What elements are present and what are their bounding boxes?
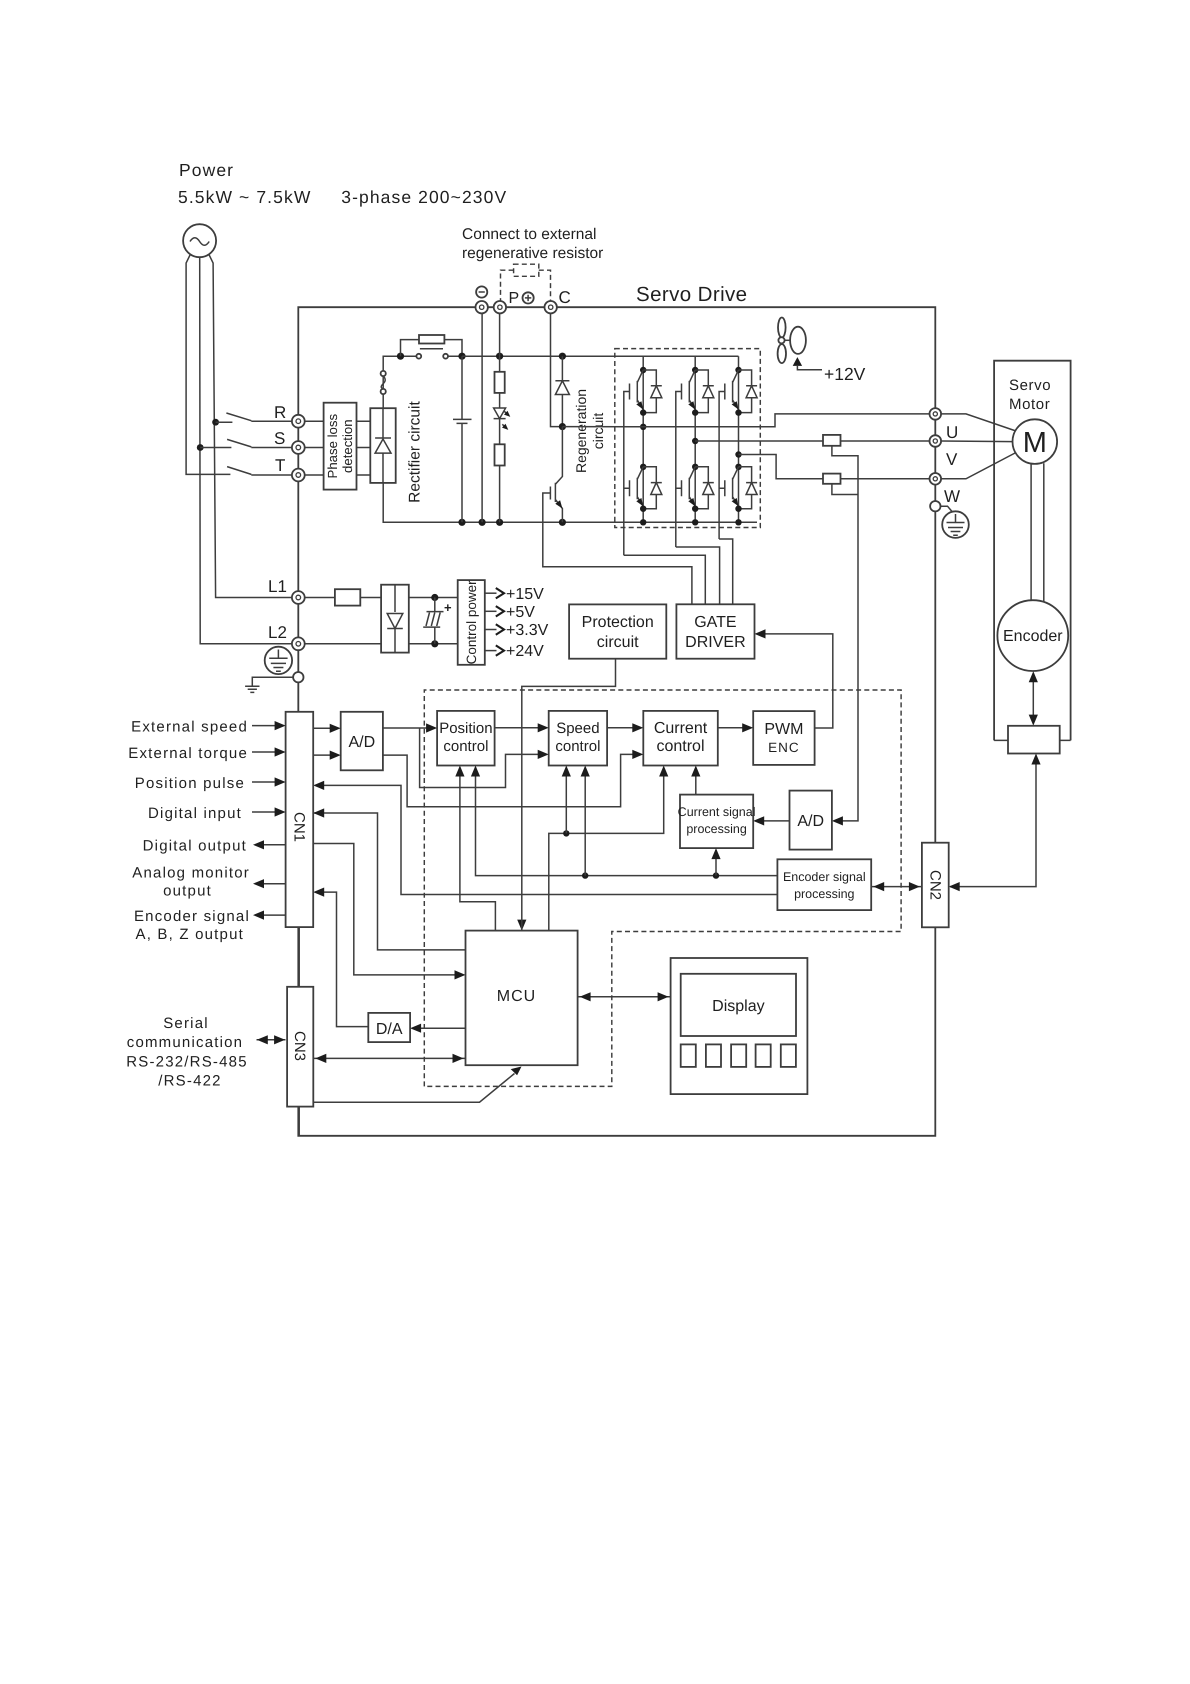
node: W bus <box>735 519 741 525</box>
arrow: feedback to speed control <box>584 768 586 876</box>
box: current signal processing <box>680 795 753 849</box>
box: current control <box>643 711 718 766</box>
terminal V <box>930 435 942 447</box>
transistor Q-U-top <box>630 370 644 410</box>
svg-text:CN1: CN1 <box>290 812 307 842</box>
transistor Q-U-bot <box>630 467 644 507</box>
svg-text:C: C <box>559 288 571 307</box>
box: protection circuit <box>569 604 666 658</box>
svg-text:MCU: MCU <box>497 988 536 1005</box>
svg-text:+: + <box>444 600 452 615</box>
svg-text:+24V: +24V <box>506 643 544 660</box>
svg-text:circuit: circuit <box>597 634 639 651</box>
wire: U gate jog to gate driver <box>624 555 706 604</box>
node: V bus <box>692 519 698 525</box>
wire: AC right leg to R switch and L1 <box>209 254 292 598</box>
box: encoder signal processing <box>777 859 871 910</box>
external regenerative resistor (dashed) <box>514 264 539 276</box>
svg-text:Regeneration: Regeneration <box>573 389 589 473</box>
node: soft charge left <box>397 353 404 360</box>
wire: +24V output <box>485 650 497 652</box>
wire: CN3 to MCU diagonal <box>313 1074 515 1103</box>
arrow: ESP to CN2 (bidirectional) <box>871 886 922 888</box>
svg-text:P: P <box>509 290 520 307</box>
node: fan 12V arrow <box>793 357 802 366</box>
motor M circle <box>1013 419 1058 464</box>
svg-text:PWM: PWM <box>764 721 803 738</box>
svg-text:Rectifier circuit: Rectifier circuit <box>407 400 424 502</box>
terminal C <box>545 301 557 313</box>
svg-text:T: T <box>275 456 285 475</box>
wire: rectifier to control power box top rail <box>409 597 458 599</box>
node: U bottom collector <box>640 464 646 470</box>
node: P terminal on rail <box>496 353 503 360</box>
wire: T to phase loss box <box>305 474 371 476</box>
node: U bottom emitter <box>640 506 646 512</box>
wire: protection to MCU <box>522 659 616 919</box>
svg-text:Position pulse: Position pulse <box>135 775 245 792</box>
fuse F-L1 <box>335 589 360 605</box>
wire: connector box to motor frame <box>994 739 1071 741</box>
wire: rectifier to control power box bottom rail <box>409 643 458 645</box>
svg-text:GATE: GATE <box>694 614 736 631</box>
svg-text:control: control <box>656 738 704 755</box>
display buttons <box>681 1044 696 1067</box>
arrow: feedback to CSP <box>715 850 717 876</box>
svg-text:output: output <box>163 882 212 899</box>
wire: rectifier top to relay (breaker) <box>383 356 397 408</box>
wire: A/D out to position control <box>383 727 435 729</box>
wire: AC left leg to T switch <box>186 254 230 474</box>
svg-text:processing: processing <box>794 887 854 901</box>
node: cap top <box>431 594 438 601</box>
wire: U to motor <box>941 414 1016 431</box>
wire: CN1 to MCU with arrow <box>313 844 463 975</box>
arrow: A/D to current signal processing <box>755 820 789 822</box>
resistor R-softcharge bypass <box>401 340 463 357</box>
svg-text:processing: processing <box>686 822 746 836</box>
arrow: current to PWM <box>718 727 751 729</box>
switch SW-R <box>216 413 292 422</box>
svg-text:S: S <box>274 429 285 448</box>
wire: +5V output <box>485 610 497 612</box>
svg-text:Protection: Protection <box>582 614 654 631</box>
protective earth PE-2 <box>265 647 292 674</box>
node: regen branch on rail <box>559 353 566 360</box>
node: regen collector junction <box>559 423 566 430</box>
encoder circle <box>997 600 1068 671</box>
svg-text:/RS-422: /RS-422 <box>158 1073 221 1090</box>
svg-text:Current signal: Current signal <box>678 805 756 819</box>
svg-text:Connect to external: Connect to external <box>462 226 596 243</box>
arrow: CSP to current control <box>695 768 697 795</box>
svg-text:Servo: Servo <box>1009 377 1051 394</box>
node: U top emitter <box>640 409 646 415</box>
wire: C terminal to regen node <box>551 314 563 427</box>
terminal S <box>292 441 305 454</box>
transistor Q-W-bot <box>725 467 739 507</box>
svg-text:DRIVER: DRIVER <box>685 634 745 651</box>
label: minus symbol <box>476 286 487 297</box>
node: V bottom collector <box>692 464 698 470</box>
svg-text:Digital input: Digital input <box>148 805 242 822</box>
node: speed feedback branch <box>582 872 588 878</box>
svg-text:ENC: ENC <box>768 740 800 755</box>
wire: P terminal drop <box>499 314 501 372</box>
svg-text:circuit: circuit <box>590 413 606 450</box>
svg-text:U: U <box>946 423 958 442</box>
svg-text:Display: Display <box>712 998 764 1015</box>
wire: ESP line C to CN1 <box>315 785 777 894</box>
svg-text:Motor: Motor <box>1009 396 1050 413</box>
box: rectifier circuit <box>370 408 395 483</box>
node: U phase tap <box>640 424 646 430</box>
wire: W gate line <box>719 392 725 540</box>
dashed control region <box>424 690 901 1086</box>
wire: S to phase loss box <box>305 447 371 449</box>
wire: +15V output <box>485 592 497 594</box>
fan icon <box>778 318 786 338</box>
svg-text:CN3: CN3 <box>291 1031 308 1061</box>
arrow: speed to current <box>607 727 641 729</box>
node: W phase tap <box>735 451 741 457</box>
connector circle above CN1 <box>293 672 303 682</box>
node: S feed junction <box>197 444 204 451</box>
wire: R to phase loss box <box>305 420 371 422</box>
box: speed control <box>549 711 607 766</box>
diode D-V-bot <box>695 467 714 509</box>
wire: ESP feedback line B <box>476 768 778 876</box>
svg-text:External torque: External torque <box>128 745 248 762</box>
wire: PWM ENC to gate driver <box>757 634 833 728</box>
svg-text:communication: communication <box>127 1034 243 1051</box>
svg-text:+5V: +5V <box>506 604 535 621</box>
box: position control <box>437 711 495 766</box>
diode D-W-top <box>739 370 758 413</box>
wire: leg U from DC+ <box>642 356 644 522</box>
svg-text:L1: L1 <box>268 577 287 596</box>
wire: +3.3V output <box>485 629 497 631</box>
arrow: MCU to display (bidirectional) <box>578 996 671 998</box>
capacitor C-bus <box>453 356 472 522</box>
svg-text:D/A: D/A <box>376 1021 403 1038</box>
transistor Q-V-bot <box>682 467 696 507</box>
connector CN2 <box>922 843 949 928</box>
svg-text:Encoder signal: Encoder signal <box>134 908 250 925</box>
node: minus terminal bus <box>479 519 486 526</box>
node: W bottom collector <box>735 464 741 470</box>
terminal L1 <box>292 591 305 604</box>
wire: L2 down to CN1 <box>297 650 299 712</box>
transistor Q-V-top <box>682 370 696 410</box>
node: V top emitter <box>692 409 698 415</box>
wire: W phase to terminal <box>739 455 930 479</box>
wire: W to motor <box>941 453 1016 479</box>
terminal U <box>930 408 942 420</box>
connector CN3 <box>287 987 313 1107</box>
switch SW-T <box>227 467 291 475</box>
terminal L2 <box>292 637 305 650</box>
protective earth PE <box>942 511 969 538</box>
switch SW-S <box>200 439 291 447</box>
svg-text:Serial: Serial <box>163 1015 209 1032</box>
svg-text:+15V: +15V <box>506 586 544 603</box>
node: cap bottom <box>431 640 438 647</box>
svg-text:W: W <box>944 487 960 506</box>
svg-text:RS-232/RS-485: RS-232/RS-485 <box>126 1054 248 1071</box>
wire: current sensors to A/D <box>832 446 858 821</box>
ground symbol <box>245 686 259 692</box>
capacitor C-ctrl (electrolytic) <box>423 598 443 644</box>
svg-text:Control power: Control power <box>464 580 479 665</box>
resistor R-bleed1 <box>495 372 505 393</box>
wire: leg V from DC+ <box>694 356 696 522</box>
wire: V gate jog to gate driver <box>676 547 720 604</box>
box: Servo Drive enclosure <box>298 307 935 1136</box>
svg-text:Position: Position <box>439 720 492 737</box>
node: W collector top <box>735 367 741 373</box>
svg-text:Speed: Speed <box>556 720 599 737</box>
svg-text:Current: Current <box>654 720 708 737</box>
arrow: serial to CN3 (bidirectional) <box>257 1039 286 1041</box>
wire: D/A to CN1 analog monitor <box>315 892 368 1027</box>
svg-text:V: V <box>946 450 958 469</box>
node: U bus <box>640 519 646 525</box>
box: control rectifier <box>381 585 409 653</box>
diode D-V-top <box>695 370 714 413</box>
box: A/D input <box>341 712 383 771</box>
wire: U phase to terminal <box>562 414 929 427</box>
arrow: position to speed <box>495 727 547 729</box>
box: display outer <box>671 958 808 1094</box>
arrow: MCU to D/A <box>412 1027 465 1029</box>
wire: ground circle to chassis ground <box>252 677 293 686</box>
terminal minus <box>476 301 488 313</box>
diode D-W-bot <box>739 467 758 509</box>
wire: DC- bus <box>383 483 757 522</box>
svg-text:External speed: External speed <box>131 719 248 736</box>
wire: fan to +12V <box>797 366 822 370</box>
node: U collector top <box>640 367 646 373</box>
box: phase loss detection <box>324 403 357 490</box>
wire: L2 to control rectifier <box>305 643 381 645</box>
node: DC+ rail / cap branch <box>458 353 465 360</box>
diode D-regen <box>555 356 569 426</box>
node: regen emitter bus <box>559 519 566 526</box>
breaker contact circles F1 <box>381 371 386 376</box>
node: V collector top <box>692 367 698 373</box>
connector CN1 <box>286 712 314 927</box>
wire: A/D branch to speed control second input <box>420 728 547 788</box>
current sensor CT-V <box>823 435 841 446</box>
relay contact K1 <box>404 349 459 356</box>
diode D-rect inside rectifier <box>375 408 391 483</box>
svg-text:R: R <box>274 403 286 422</box>
diode D-U-top <box>643 370 662 413</box>
box: inverter dashed <box>615 349 761 528</box>
resistor R-bleed2 <box>495 444 505 465</box>
svg-text:Analog monitor: Analog monitor <box>132 864 250 881</box>
node: CSP feedback branch <box>713 872 719 878</box>
transistor Q-W-top <box>725 370 739 410</box>
wire: motor shaft to encoder <box>1031 463 1044 601</box>
node: W bottom emitter <box>735 506 741 512</box>
box: MCU <box>466 931 578 1066</box>
terminal P <box>494 301 506 313</box>
AC source G1 <box>183 224 216 257</box>
svg-text:Servo Drive: Servo Drive <box>636 283 748 306</box>
wire: CN2 to encoder connector <box>950 756 1036 887</box>
transistor Q-regen (IGBT) <box>550 427 562 523</box>
wire: V phase to terminal <box>695 440 929 442</box>
wire: MCU to position control <box>460 768 496 931</box>
box: control power <box>458 580 485 665</box>
svg-text:A/D: A/D <box>348 734 375 751</box>
wire: CN1 digital input to MCU <box>313 813 465 950</box>
svg-text:regenerative resistor: regenerative resistor <box>462 245 603 262</box>
svg-text:control: control <box>555 738 600 755</box>
svg-text:+12V: +12V <box>824 364 866 384</box>
wire: DC+ rail <box>462 355 739 357</box>
svg-text:control: control <box>443 738 488 755</box>
svg-text:Digital output: Digital output <box>143 837 247 854</box>
wire: CN1 bottom to CN3 <box>298 927 300 987</box>
svg-text:Encoder signal: Encoder signal <box>783 870 866 884</box>
diode D-ctrl inside <box>387 585 403 653</box>
svg-text:Power: Power <box>179 160 234 180</box>
diode D-U-bot <box>643 467 662 509</box>
wire: encoder to connector (double arrow) <box>1032 673 1034 724</box>
terminal W <box>930 473 942 485</box>
terminal T <box>292 469 305 482</box>
box: A/D feedback <box>790 791 832 850</box>
arrow: CN1 to A/D row2 <box>313 754 339 756</box>
svg-text:Phase loss: Phase loss <box>325 414 340 479</box>
svg-text:detection: detection <box>340 419 355 473</box>
svg-text:M: M <box>1023 427 1047 459</box>
svg-text:L2: L2 <box>268 623 287 642</box>
svg-text:A, B, Z output: A, B, Z output <box>135 926 244 943</box>
terminal ground <box>930 501 940 511</box>
node: bleeder bottom <box>496 519 503 526</box>
wire: W gate jog to gate driver <box>719 539 733 604</box>
box: servo motor <box>994 361 1071 741</box>
wire: A/D out2 to current control second input <box>383 754 641 806</box>
svg-text:A/D: A/D <box>797 813 824 830</box>
node: V phase tap <box>692 438 698 444</box>
node: V bottom emitter <box>692 506 698 512</box>
wire: leg W from DC+ <box>738 356 740 522</box>
wire: regen gate to gate driver <box>543 493 692 604</box>
wire: fuse to control rectifier <box>360 597 381 599</box>
box: display screen <box>681 974 796 1036</box>
box: gate driver <box>676 604 754 658</box>
box: motor encoder connector <box>1008 726 1060 754</box>
current sensor CT-W <box>823 474 841 484</box>
node: R feed junction <box>212 419 219 426</box>
terminal R <box>292 415 305 428</box>
wire: MCU to speed/current bottom inputs <box>549 768 664 931</box>
svg-text:+3.3V: +3.3V <box>506 622 549 639</box>
box: D/A <box>368 1013 410 1042</box>
wire: minus terminal to DC- bus <box>481 314 483 523</box>
arrow: CN1 to A/D row1 <box>313 727 339 729</box>
wire: ground terminal to PE <box>941 506 953 511</box>
wire: V gate line <box>676 392 682 548</box>
svg-text:Encoder: Encoder <box>1003 628 1063 645</box>
wire: V to motor <box>941 440 1012 443</box>
wire: CN3 bottom to box bottom <box>298 1107 300 1136</box>
LED D-charge <box>494 408 506 444</box>
arrow: CN3 to MCU (bidirectional) <box>313 1057 465 1059</box>
wire: L1 to fuse <box>305 597 335 599</box>
wire: AC middle leg to L2 <box>200 257 292 644</box>
node: W top emitter <box>735 409 741 415</box>
svg-text:CN2: CN2 <box>926 870 943 900</box>
box: PWM ENC <box>753 711 814 765</box>
node: speed branch <box>563 830 569 836</box>
svg-text:5.5kW ~ 7.5kW 3-phase 200~: 5.5kW ~ 7.5kW 3-phase 200~230V <box>178 187 507 207</box>
node: cap bottom <box>458 519 465 526</box>
wire: U gate line <box>624 392 630 556</box>
